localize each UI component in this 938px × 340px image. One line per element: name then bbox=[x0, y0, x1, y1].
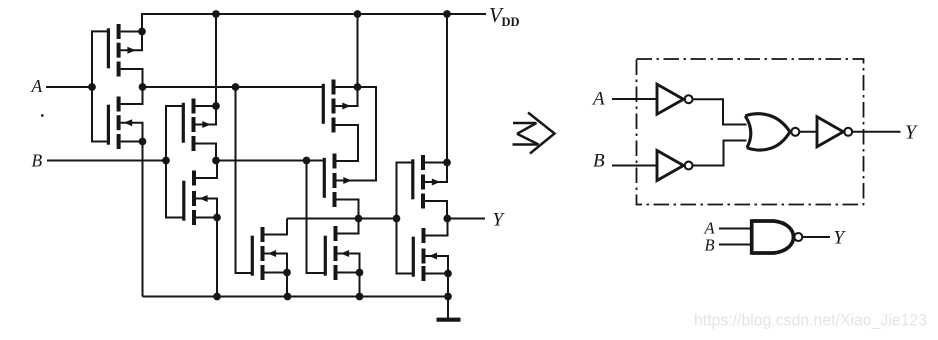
wire: VT2 gate lead bbox=[92, 87, 109, 142]
wire: VT6 bulk to VDD branch bbox=[337, 87, 377, 181]
svg-text:https://blog.csdn.net/Xiao_Jie: https://blog.csdn.net/Xiao_Jie123 bbox=[694, 312, 927, 330]
wire: VT10 source to rail bbox=[447, 274, 449, 297]
svg-text:DD: DD bbox=[502, 15, 520, 29]
wire: Bnot net bbox=[216, 160, 325, 162]
wire: VT10 drain up to Y bbox=[426, 219, 448, 236]
wire: Anot drop to VT7 gate bbox=[236, 87, 254, 273]
wire: VT1 gate lead bbox=[92, 31, 109, 87]
wire: VT10 bulk tie bbox=[426, 256, 449, 274]
wire: VT7 bulk tie bbox=[265, 254, 288, 273]
wire: VT7 source to rail bbox=[286, 273, 288, 297]
wire: VT8 drain up to NOR output bbox=[338, 219, 359, 234]
wire: A to inverter G1 bbox=[612, 98, 657, 100]
svg-text:B: B bbox=[32, 151, 43, 171]
wire: B input bbox=[47, 160, 166, 162]
svg-text:A: A bbox=[31, 76, 43, 96]
wire: VT5 bulk tie bbox=[336, 87, 358, 106]
wire: Y output bbox=[447, 218, 485, 220]
svg-text:A: A bbox=[591, 89, 605, 110]
wire: VT1 bulk tie bbox=[121, 32, 142, 51]
wire: A into NAND bbox=[719, 228, 751, 230]
wire: G2 out to NOR input bbox=[693, 141, 747, 166]
node Bnot bbox=[212, 157, 220, 165]
ground bbox=[437, 318, 461, 322]
transistor VT7 (NMOS) bbox=[252, 227, 276, 280]
transistor VT3 (PMOS) bbox=[183, 99, 210, 152]
wire: VT3 bulk tie bbox=[196, 106, 217, 125]
wire: VT7 drain up to NOR output bbox=[265, 219, 288, 235]
wire: B into NAND bbox=[719, 244, 751, 246]
VDD rail bbox=[142, 13, 486, 15]
wire: VT3 gate lead bbox=[166, 106, 184, 161]
node Y bbox=[443, 215, 451, 223]
inverter G4 bbox=[817, 117, 852, 147]
stray mark bbox=[41, 114, 44, 117]
node: rail junction dots bbox=[212, 10, 220, 18]
wire: VT6 drain down to NOR output bbox=[337, 200, 359, 219]
transistor VT4 (NMOS) bbox=[184, 171, 208, 226]
node Anot bbox=[139, 83, 147, 91]
node Anot to VT7 gate tap bbox=[232, 83, 240, 91]
wire: VT4 gate lead bbox=[166, 161, 185, 218]
wire: A input bbox=[46, 86, 92, 88]
wire: VDD drop to VT5 source bbox=[357, 14, 359, 87]
wire: VDD drop to VT9 source bbox=[446, 14, 448, 163]
node A junction bbox=[88, 83, 96, 91]
wire: VT9 source lead bbox=[425, 162, 447, 164]
wire: VT2 source bbox=[121, 141, 143, 143]
wire: VT9 drain down to Y bbox=[425, 201, 447, 219]
svg-text:Y: Y bbox=[493, 210, 506, 231]
wire: NOR output net bbox=[287, 218, 397, 220]
wire: VT1 source to VDD bbox=[121, 31, 142, 33]
wire: VT8 bulk tie bbox=[338, 254, 360, 273]
wire: VT2 drain up to Anot bbox=[121, 87, 143, 104]
transistor VT9 (PMOS) bbox=[413, 155, 440, 209]
wire: VT4 source bbox=[196, 217, 217, 219]
wire: VT10 source bbox=[426, 273, 449, 275]
wire: Anot net bbox=[143, 86, 324, 88]
svg-text:B: B bbox=[705, 236, 715, 255]
big implication arrow bbox=[513, 113, 555, 154]
wire: ground rail bbox=[143, 296, 449, 298]
wire: VT7 source bbox=[265, 272, 288, 274]
node NOR drains join bbox=[355, 215, 363, 223]
wire: Bnot drop to VT8 gate bbox=[307, 161, 327, 274]
wire: VT3 source lead bbox=[196, 105, 217, 107]
wire: NOR out to inverter G4 bbox=[800, 131, 817, 133]
wire: NOR output down to VT10 gate bbox=[397, 219, 415, 274]
wire: NOR output up to VT9 gate bbox=[397, 163, 414, 219]
svg-text:Y: Y bbox=[834, 228, 847, 249]
wire: B to inverter G2 bbox=[612, 165, 657, 167]
wire: to ground symbol bbox=[447, 297, 449, 320]
wire: VT1 drain down to Anot node bbox=[121, 69, 143, 87]
wire: VT2 bulk tie bbox=[121, 123, 143, 142]
wire: VT3 drain down to Bnot bbox=[196, 144, 217, 161]
wire: VT8 source bbox=[338, 272, 360, 274]
NOR gate G3 bbox=[745, 114, 799, 150]
transistor VT2 (NMOS) bbox=[108, 97, 132, 150]
wire: VT8 source to rail bbox=[359, 273, 361, 297]
transistor VT6 (PMOS) bbox=[324, 154, 351, 208]
wire: VT2 source down to ground rail bbox=[142, 142, 144, 297]
wire: VDD drop to VT3 source bbox=[215, 14, 217, 106]
svg-text:B: B bbox=[593, 151, 605, 172]
node NOR output bbox=[393, 215, 401, 223]
inverter G2 bbox=[657, 151, 693, 181]
transistor VT10 (NMOS) bbox=[413, 228, 437, 281]
transistor VT8 (NMOS) bbox=[325, 226, 349, 280]
wire: VT4 bulk tie bbox=[196, 199, 217, 218]
wire: VT5 drain to VT6 source bbox=[336, 125, 359, 161]
wire: VT4 drain up to Bnot bbox=[196, 161, 217, 179]
wire: NAND out to Y bbox=[803, 236, 830, 238]
wire: G1 out to NOR input bbox=[693, 99, 747, 124]
node B junction bbox=[162, 157, 170, 165]
node Bnot to VT8 gate tap bbox=[303, 157, 311, 165]
wire: VT4 source down to rail bbox=[216, 218, 218, 297]
NAND gate bbox=[752, 219, 803, 254]
inverter G1 bbox=[657, 84, 693, 114]
wire: VT5 source lead bbox=[336, 86, 358, 88]
svg-text:Y: Y bbox=[905, 122, 918, 144]
dash-dot enclosure box bbox=[637, 59, 864, 205]
wire: G4 out to Y bbox=[853, 131, 901, 133]
wire: VT9 bulk tie bbox=[425, 163, 447, 183]
transistor VT1 (PMOS) bbox=[108, 24, 135, 77]
transistor VT5 (PMOS) bbox=[323, 80, 350, 133]
